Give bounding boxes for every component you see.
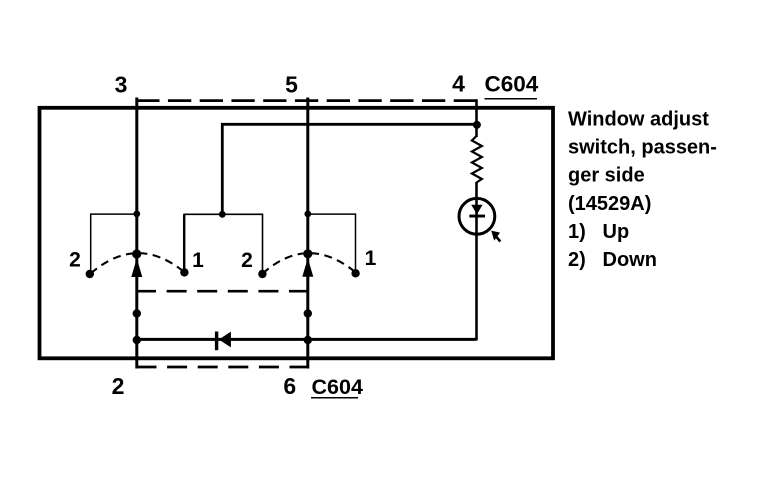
svg-text:5: 5	[285, 72, 298, 98]
svg-text:2: 2	[241, 249, 253, 272]
svg-text:C604: C604	[312, 375, 363, 399]
svg-text:Window adjust: Window adjust	[568, 109, 709, 131]
svg-text:Up: Up	[603, 221, 630, 243]
svg-text:2): 2)	[568, 249, 586, 271]
svg-text:C604: C604	[485, 72, 539, 97]
svg-text:6: 6	[283, 373, 296, 399]
svg-text:switch, passen-: switch, passen-	[568, 137, 717, 159]
svg-text:1: 1	[365, 247, 377, 270]
svg-text:ger side: ger side	[568, 165, 645, 187]
svg-text:1: 1	[192, 249, 204, 272]
svg-text:3: 3	[115, 72, 128, 98]
svg-text:2: 2	[69, 249, 81, 272]
svg-text:1): 1)	[568, 221, 586, 243]
svg-text:4: 4	[452, 71, 465, 97]
svg-text:(14529A): (14529A)	[568, 193, 651, 215]
svg-text:Down: Down	[603, 249, 657, 271]
svg-text:2: 2	[112, 373, 125, 399]
